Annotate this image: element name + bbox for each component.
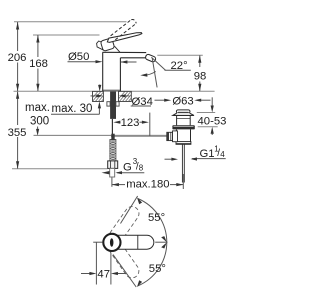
dimension 168 extension line (top of lever at rest) (33, 34, 100, 36)
svg-text:47: 47 (97, 268, 110, 280)
svg-text:22°: 22° (171, 60, 188, 72)
plan: lever seam line (137, 235, 139, 249)
svg-text:98: 98 (194, 71, 207, 83)
plan: lever pin (110, 238, 114, 247)
dimension line 355 with arrows (17, 92, 19, 169)
Ø50 right-side arrow (121, 61, 137, 63)
dimension 123 (118, 121, 121, 123)
dimension max.180 (111, 178, 113, 187)
pop-up rod line (max 300 level) (34, 134, 167, 136)
22 deg vertical reference line (152, 58, 157, 87)
pop-up waste: plug (176, 110, 190, 113)
svg-text:8: 8 (139, 164, 144, 173)
plan: dashed lever rotated down 55 deg (106, 238, 141, 280)
mounting nut tabs (107, 102, 110, 106)
svg-text:55°: 55° (148, 212, 165, 224)
aerator at spout tip (22 deg) (145, 54, 156, 63)
pop-up waste: body (176, 129, 190, 141)
pop-up waste: bottom band (176, 142, 191, 145)
pop-up waste: lock ring (172, 125, 194, 129)
flexible hose upper tube (111, 119, 113, 141)
svg-text:206: 206 (8, 52, 27, 64)
svg-text:4: 4 (220, 150, 225, 159)
dimension 47 (96, 242, 111, 284)
plan: 55 deg leg line lower (113, 255, 136, 288)
flexible hose braided section (110, 140, 116, 161)
hose connector nut G3/8 (108, 161, 118, 169)
dimension line 168 with arrows (37, 35, 39, 91)
svg-text:Ø63: Ø63 (172, 96, 193, 108)
plan: left extension dash (93, 241, 102, 243)
123 right extension line (149, 113, 151, 136)
svg-text:123: 123 (121, 117, 140, 129)
svg-text:max.180: max.180 (126, 179, 169, 191)
svg-text:55°: 55° (149, 263, 166, 275)
plan: right center line (155, 241, 167, 243)
22 deg label underline (165, 69, 191, 71)
svg-text:max.: max. (25, 102, 50, 114)
hose end tube (110, 168, 115, 177)
dimension 206 extension line (top of raised lever) (14, 21, 127, 23)
22 deg angle leg line (151, 57, 165, 70)
dimension Ø63 (155, 99, 167, 101)
rod clamp at junction (111, 134, 114, 142)
mounting surface line (14, 90, 215, 92)
plan: 55 deg arc lower with arrowheads (138, 242, 167, 286)
pop-up waste: side ball-joint fitting (173, 131, 178, 142)
dimension line 206 with arrows (17, 22, 19, 91)
pop-up waste: neck (177, 116, 191, 126)
svg-text:G: G (123, 162, 132, 174)
svg-text:300: 300 (30, 115, 49, 127)
countertop cross-section (hatched) (93, 91, 132, 101)
raised lever (dashed) (111, 20, 137, 40)
svg-text:max. 30: max. 30 (52, 103, 93, 115)
plan: 55 deg leg line upper (121, 196, 138, 224)
dimension line 98 with arrows (199, 55, 201, 91)
threaded shank (110, 91, 116, 119)
22 deg arc with arrow (144, 72, 156, 76)
300 dimension arrow (37, 127, 39, 131)
dimension 98 top extension line (spout outlet level) (157, 54, 203, 56)
pop-up waste: flange (173, 113, 194, 115)
plan: 55 deg arc upper with arrowheads (138, 199, 167, 243)
svg-text:40-53: 40-53 (198, 115, 227, 127)
lever blade (side view) (107, 33, 142, 43)
max.30 dimension arrows at countertop (98, 107, 100, 115)
plan: lever (stadium shape) (112, 235, 154, 249)
plan: dashed lever rotated up 55 deg (106, 204, 141, 246)
svg-text:G1: G1 (200, 148, 215, 160)
Ø34 dimension arrows at hole (91, 95, 98, 97)
plan: faucet body circle (103, 234, 120, 251)
svg-text:168: 168 (29, 58, 48, 70)
faucet body (103, 52, 148, 91)
pop-up waste: tailpipe (182, 144, 184, 182)
dimension 40-53 (197, 112, 215, 114)
svg-text:355: 355 (8, 127, 27, 139)
lever cap (pivot dome, side view) (97, 41, 104, 50)
dimension 355 bottom extension line (12, 168, 107, 170)
